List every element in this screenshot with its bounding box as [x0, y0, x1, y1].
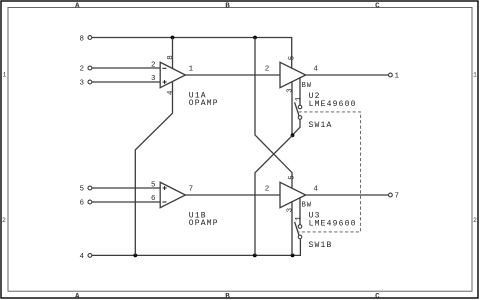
U3 pin 3 V- stub — [291, 202, 293, 256]
wire U1B out to U3 in — [185, 194, 280, 196]
svg-text:7: 7 — [189, 186, 194, 194]
U1B plus input marker — [163, 186, 167, 190]
svg-text:6: 6 — [79, 200, 84, 208]
wire U1A out to U2 in — [185, 74, 280, 76]
U1A plus input marker — [163, 80, 167, 84]
wire V- bottom rail — [92, 239, 301, 256]
wire U3 out to terminal 7 — [306, 194, 389, 196]
svg-text:8: 8 — [167, 55, 175, 60]
svg-text:1: 1 — [295, 216, 303, 221]
svg-text:B: B — [225, 2, 230, 10]
junction at net B bottom — [253, 254, 257, 258]
junction at U1A pin 8 — [171, 36, 175, 40]
terminal pin 7 output — [389, 193, 400, 201]
net B V- crossover to bottom rail — [255, 135, 293, 255]
svg-text:C: C — [375, 2, 380, 10]
wire U2 out to terminal 1 — [306, 74, 389, 76]
svg-text:4: 4 — [313, 66, 318, 74]
svg-text:A: A — [75, 293, 80, 300]
U1A minus input marker — [162, 67, 166, 69]
op-amp U1A body — [160, 62, 185, 88]
junction at U1A pin4 net — [133, 254, 137, 258]
wire pin5 to U1B — [92, 187, 160, 189]
junction at U3 V- — [291, 254, 295, 258]
switch SW1A — [295, 102, 333, 130]
U3 pin 1 BW stub — [299, 198, 301, 225]
junction SW1A / U2 V- — [291, 133, 295, 137]
svg-text:3: 3 — [79, 80, 84, 88]
svg-text:5: 5 — [288, 55, 296, 60]
svg-text:4: 4 — [167, 90, 175, 95]
wire pin3 to U1A — [92, 81, 160, 83]
svg-text:4: 4 — [313, 186, 318, 194]
U2 pin 1 BW stub — [299, 78, 301, 105]
svg-text:7: 7 — [395, 193, 400, 201]
wire V+ rail to U2 pin 5 — [92, 38, 292, 69]
svg-text:2: 2 — [151, 61, 156, 69]
svg-text:8: 8 — [79, 35, 84, 43]
dashed gang link box SW1A-SW1B — [299, 112, 361, 232]
svg-text:5: 5 — [288, 175, 296, 180]
svg-text:6: 6 — [151, 195, 156, 203]
terminal pin 5 — [79, 186, 91, 194]
svg-text:BW: BW — [302, 82, 312, 90]
svg-text:LME49600: LME49600 — [309, 100, 357, 109]
buffer U3 body — [280, 182, 306, 207]
svg-text:C: C — [375, 293, 380, 300]
svg-text:3: 3 — [151, 75, 156, 83]
svg-text:A: A — [75, 2, 80, 10]
wire SW1A bottom to V- junction — [293, 119, 301, 135]
svg-text:2: 2 — [265, 66, 270, 74]
svg-text:OPAMP: OPAMP — [189, 99, 219, 108]
svg-text:SW1B: SW1B — [309, 241, 333, 250]
U1B minus input marker — [162, 201, 166, 203]
svg-text:3: 3 — [287, 88, 295, 93]
svg-text:2: 2 — [473, 217, 477, 224]
switch SW1B — [295, 222, 333, 250]
terminal pin 1 output — [389, 73, 400, 81]
terminal pin 4 — [79, 253, 91, 261]
svg-text:1: 1 — [295, 96, 303, 101]
U1A pin 4 net to bottom rail — [135, 82, 172, 256]
buffer U2 body — [280, 62, 306, 87]
terminal pin 2 — [79, 66, 91, 74]
svg-text:OPAMP: OPAMP — [189, 219, 219, 228]
svg-text:5: 5 — [151, 181, 156, 189]
svg-text:5: 5 — [79, 186, 84, 194]
junction at net A drop — [253, 36, 257, 40]
net A V+ crossover to U3 pin 5 — [255, 38, 292, 189]
svg-text:BW: BW — [302, 202, 312, 210]
U2 pin 3 V- stub — [291, 82, 293, 136]
svg-text:3: 3 — [287, 207, 295, 212]
svg-text:1: 1 — [473, 71, 477, 78]
terminal pin 6 — [79, 200, 91, 208]
svg-text:2: 2 — [2, 217, 6, 224]
wire pin6 to U1B — [92, 201, 160, 203]
svg-text:2: 2 — [265, 186, 270, 194]
svg-text:B: B — [225, 293, 230, 300]
svg-text:1: 1 — [189, 66, 194, 74]
terminal pin 8 — [79, 35, 91, 43]
svg-text:1: 1 — [395, 73, 400, 81]
svg-text:2: 2 — [79, 66, 84, 74]
svg-text:SW1A: SW1A — [309, 121, 333, 130]
wire pin2 to U1A — [92, 67, 160, 69]
op-amp U1B body — [160, 182, 185, 208]
svg-text:LME49600: LME49600 — [309, 219, 357, 228]
svg-text:1: 1 — [2, 71, 6, 78]
terminal pin 3 — [79, 80, 91, 88]
U1A pin 8 power stub — [172, 38, 174, 69]
svg-text:4: 4 — [79, 253, 84, 261]
